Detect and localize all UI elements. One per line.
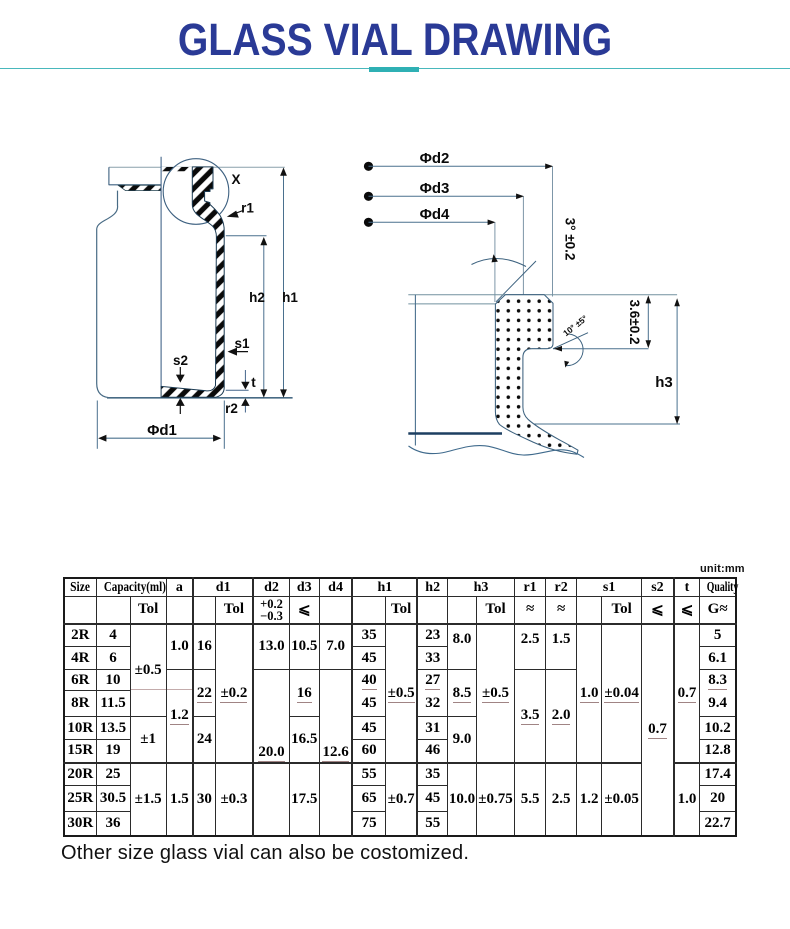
- svg-text:r1: r1: [241, 201, 254, 216]
- svg-text:3° ±0.2: 3° ±0.2: [563, 218, 578, 261]
- svg-text:h2: h2: [249, 290, 265, 305]
- svg-text:Φd3: Φd3: [420, 180, 450, 197]
- svg-text:X: X: [231, 172, 240, 187]
- svg-text:t: t: [251, 375, 256, 390]
- svg-text:h1: h1: [282, 290, 298, 305]
- svg-text:r2: r2: [225, 401, 238, 416]
- svg-text:Φd4: Φd4: [420, 206, 450, 223]
- svg-text:Φd2: Φd2: [420, 150, 450, 167]
- svg-text:3.6±0.2: 3.6±0.2: [627, 300, 642, 345]
- svg-text:h3: h3: [655, 374, 673, 391]
- svg-text:s2: s2: [173, 353, 188, 368]
- svg-text:Φd1: Φd1: [147, 422, 177, 439]
